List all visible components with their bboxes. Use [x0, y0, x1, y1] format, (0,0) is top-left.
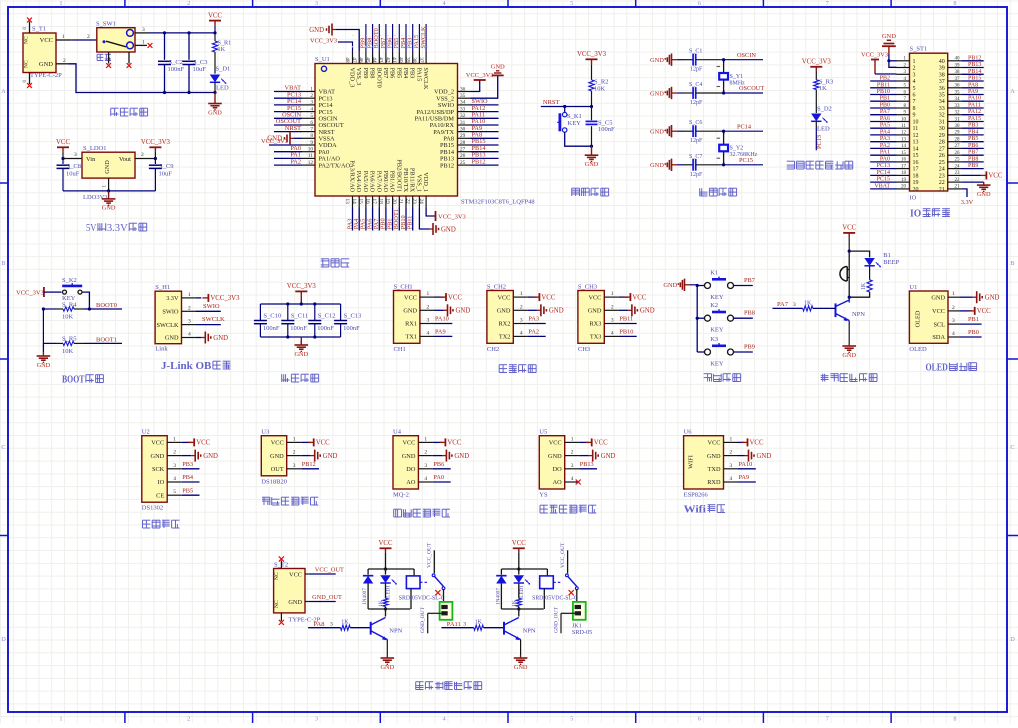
svg-text:DS1302: DS1302 [142, 505, 163, 512]
svg-text:PC15: PC15 [877, 177, 890, 183]
svg-text:19: 19 [901, 178, 907, 183]
svg-text:GND: GND [640, 308, 655, 315]
svg-text:GND: GND [842, 352, 856, 359]
svg-text:S_LDO1: S_LDO1 [83, 145, 106, 152]
svg-text:2: 2 [571, 450, 574, 456]
svg-text:36: 36 [460, 86, 466, 92]
svg-text:20: 20 [901, 185, 907, 190]
svg-text:15: 15 [358, 199, 364, 205]
svg-text:S_K2: S_K2 [62, 277, 77, 284]
svg-text:SRD-05VDC-SL-C: SRD-05VDC-SL-C [532, 596, 578, 602]
svg-text:35: 35 [955, 90, 961, 95]
svg-text:PB15: PB15 [968, 76, 981, 82]
svg-text:RX3: RX3 [589, 321, 601, 328]
svg-text:16: 16 [913, 160, 919, 166]
svg-text:6: 6 [913, 93, 916, 99]
svg-text:GND: GND [456, 308, 471, 315]
svg-text:Link: Link [155, 346, 168, 353]
svg-text:31: 31 [955, 117, 961, 122]
svg-text:RXD: RXD [707, 479, 721, 486]
svg-text:38: 38 [955, 70, 961, 75]
svg-text:GND: GND [650, 162, 664, 169]
svg-text:13: 13 [901, 138, 907, 143]
svg-text:LED1: LED1 [386, 585, 392, 598]
svg-text:100nF: 100nF [263, 325, 280, 332]
svg-text:BOOT0: BOOT0 [375, 68, 382, 88]
svg-text:PB8: PB8 [744, 310, 755, 317]
svg-text:1: 1 [59, 0, 62, 7]
svg-text:34: 34 [939, 99, 945, 105]
svg-text:S_H1: S_H1 [155, 284, 170, 291]
svg-text:OSCIN: OSCIN [737, 52, 756, 59]
svg-text:2: 2 [913, 66, 916, 72]
svg-text:8: 8 [953, 716, 956, 723]
svg-text:GND: GND [650, 57, 664, 64]
svg-text:2: 2 [293, 450, 296, 456]
svg-text:3.3V: 3.3V [166, 295, 179, 302]
svg-text:VCC_3V3: VCC_3V3 [577, 51, 607, 58]
svg-text:NPN: NPN [523, 628, 536, 635]
svg-text:YS: YS [539, 492, 548, 499]
svg-text:TX1: TX1 [405, 334, 417, 341]
svg-text:37: 37 [955, 77, 961, 82]
svg-text:14: 14 [901, 144, 907, 149]
svg-text:VCC: VCC [512, 540, 526, 547]
svg-text:S_CH3: S_CH3 [578, 283, 597, 290]
svg-text:PA2: PA2 [528, 329, 539, 336]
svg-text:GND: GND [497, 308, 511, 315]
svg-text:21: 21 [939, 187, 945, 193]
svg-text:1N4007: 1N4007 [495, 588, 501, 605]
svg-text:U5: U5 [539, 429, 547, 436]
svg-text:RX2: RX2 [498, 321, 510, 328]
svg-text:PA11: PA11 [968, 103, 981, 109]
svg-text:41: 41 [391, 57, 397, 63]
svg-text:PB6: PB6 [968, 143, 978, 149]
svg-text:PA10: PA10 [968, 96, 981, 102]
svg-text:1: 1 [173, 436, 176, 442]
svg-text:PC13: PC13 [877, 163, 890, 169]
svg-text:34: 34 [460, 100, 466, 106]
svg-text:44: 44 [371, 57, 377, 63]
svg-text:GND: GND [403, 308, 417, 315]
svg-text:BOOT1: BOOT1 [96, 336, 117, 343]
svg-text:KEY: KEY [568, 120, 582, 127]
svg-text:1: 1 [62, 34, 65, 40]
svg-text:AO: AO [553, 479, 563, 486]
svg-text:VCC: VCC [208, 12, 222, 19]
svg-text:6: 6 [698, 716, 701, 723]
svg-text:SWCLK: SWCLK [202, 316, 225, 323]
svg-text:U3: U3 [261, 429, 269, 436]
svg-text:GND_OUT: GND_OUT [553, 606, 559, 633]
svg-text:PA3: PA3 [880, 136, 890, 142]
svg-text:PA10: PA10 [435, 316, 449, 323]
svg-text:GND_OUT: GND_OUT [312, 594, 342, 601]
svg-text:VCC_3V3: VCC_3V3 [802, 59, 832, 66]
svg-text:23: 23 [939, 173, 945, 179]
svg-text:23: 23 [955, 171, 961, 176]
svg-text:20: 20 [391, 198, 397, 204]
svg-text:D: D [1, 636, 6, 643]
svg-text:37: 37 [939, 79, 945, 85]
svg-text:BOOT0: BOOT0 [96, 302, 117, 309]
svg-text:GND: GND [104, 160, 111, 174]
svg-text:S_SW1: S_SW1 [96, 21, 116, 28]
svg-text:PC14: PC14 [737, 123, 752, 130]
svg-text:GND: GND [757, 453, 772, 460]
svg-text:34: 34 [955, 97, 961, 102]
svg-text:1: 1 [913, 59, 916, 65]
svg-text:3: 3 [571, 463, 574, 469]
svg-text:BEEP: BEEP [883, 259, 899, 266]
svg-text:S_C9: S_C9 [159, 163, 173, 170]
svg-text:3: 3 [315, 716, 318, 723]
svg-text:A: A [1, 88, 6, 95]
svg-text:Vout: Vout [119, 156, 131, 163]
svg-text:GND: GND [39, 61, 53, 68]
svg-text:PB13: PB13 [968, 62, 981, 68]
svg-text:12: 12 [901, 131, 907, 136]
svg-text:100nF: 100nF [598, 126, 615, 133]
svg-text:GND: GND [402, 453, 416, 460]
svg-text:3: 3 [142, 27, 145, 33]
svg-text:2: 2 [427, 304, 430, 310]
svg-text:32: 32 [939, 113, 945, 119]
svg-text:7: 7 [826, 0, 829, 7]
svg-text:3: 3 [293, 463, 296, 469]
svg-text:PA0: PA0 [880, 156, 890, 162]
svg-text:DS18B20: DS18B20 [261, 478, 287, 485]
svg-text:PB8: PB8 [369, 68, 376, 79]
svg-text:S_T1: S_T1 [32, 26, 46, 33]
svg-text:28: 28 [460, 140, 466, 146]
svg-text:VCC: VCC [196, 440, 210, 447]
svg-text:SCK: SCK [152, 466, 165, 473]
svg-text:2: 2 [188, 305, 191, 311]
svg-text:B: B [1010, 260, 1014, 267]
svg-text:40: 40 [939, 59, 945, 65]
svg-text:39: 39 [404, 57, 410, 63]
svg-text:A: A [1010, 88, 1015, 95]
svg-text:1: 1 [427, 291, 430, 297]
svg-text:PA15: PA15 [415, 68, 422, 82]
svg-text:VCC: VCC [151, 440, 164, 447]
svg-text:LED1: LED1 [519, 585, 525, 598]
svg-text:PB4: PB4 [968, 129, 978, 135]
svg-text:25: 25 [460, 160, 466, 166]
svg-text:36: 36 [955, 84, 961, 89]
svg-text:S_C10: S_C10 [263, 312, 281, 319]
svg-text:40: 40 [955, 57, 961, 62]
svg-text:S_K1: S_K1 [567, 113, 582, 120]
svg-text:35: 35 [460, 93, 466, 99]
svg-text:PB10/TX: PB10/TX [402, 168, 409, 193]
svg-text:2: 2 [187, 0, 190, 7]
svg-text:3: 3 [74, 152, 77, 158]
svg-text:6: 6 [310, 120, 313, 126]
svg-text:PB10: PB10 [619, 329, 633, 336]
svg-text:33: 33 [460, 106, 466, 112]
svg-text:TXD: TXD [708, 466, 721, 473]
svg-text:PB1: PB1 [880, 96, 890, 102]
svg-text:4: 4 [427, 330, 430, 336]
svg-text:11: 11 [901, 124, 906, 129]
svg-text:29: 29 [955, 131, 961, 136]
svg-text:33: 33 [939, 106, 945, 112]
svg-text:5: 5 [570, 716, 573, 723]
svg-text:DO: DO [553, 466, 563, 473]
svg-text:SWCLK: SWCLK [156, 322, 178, 329]
svg-text:PB9: PB9 [362, 68, 369, 79]
svg-text:KEY: KEY [710, 361, 724, 368]
svg-text:VSS_1: VSS_1 [415, 174, 422, 192]
svg-text:PA12: PA12 [968, 109, 981, 115]
svg-text:3: 3 [315, 0, 318, 7]
svg-text:VCC: VCC [594, 440, 608, 447]
svg-text:VCC_3V3: VCC_3V3 [16, 289, 44, 296]
svg-text:PA9: PA9 [739, 474, 750, 481]
svg-text:9: 9 [913, 113, 916, 119]
svg-text:PB12: PB12 [968, 55, 981, 61]
svg-text:32: 32 [460, 113, 466, 119]
svg-text:GND: GND [601, 453, 616, 460]
svg-text:1: 1 [520, 291, 523, 297]
svg-text:VCC_3V3: VCC_3V3 [861, 51, 888, 58]
svg-text:15: 15 [901, 151, 907, 156]
svg-text:PA4: PA4 [880, 129, 890, 135]
svg-text:PB11/RX: PB11/RX [409, 168, 416, 193]
svg-text:3: 3 [310, 100, 313, 106]
svg-text:U1: U1 [909, 284, 917, 291]
svg-text:46: 46 [358, 57, 364, 63]
svg-text:23: 23 [411, 199, 417, 205]
svg-text:VCC_3V3: VCC_3V3 [261, 138, 288, 145]
svg-text:1: 1 [310, 86, 313, 92]
svg-text:8MHz: 8MHz [730, 81, 746, 87]
svg-text:4: 4 [188, 332, 191, 338]
svg-text:IO: IO [158, 479, 165, 486]
svg-text:7: 7 [826, 716, 829, 723]
svg-text:CE: CE [156, 492, 164, 499]
svg-text:PA2/TX/AO: PA2/TX/AO [319, 162, 351, 169]
svg-text:10uF: 10uF [159, 171, 173, 178]
svg-text:VCC: VCC [56, 139, 70, 146]
svg-text:PB12: PB12 [472, 158, 486, 165]
svg-text:2: 2 [310, 93, 313, 99]
svg-text:PA0: PA0 [433, 474, 444, 481]
svg-text:PC13: PC13 [816, 135, 823, 149]
svg-text:VCC_OUT: VCC_OUT [560, 542, 566, 568]
svg-text:2: 2 [63, 58, 66, 64]
svg-text:4: 4 [730, 476, 733, 482]
svg-text:PC14: PC14 [877, 170, 890, 176]
svg-text:19: 19 [384, 198, 390, 204]
svg-text:100nF: 100nF [168, 66, 185, 73]
svg-text:S_Y1: S_Y1 [730, 74, 744, 80]
svg-text:25: 25 [939, 160, 945, 166]
svg-text:GND: GND [707, 453, 721, 460]
svg-text:9: 9 [310, 140, 313, 146]
svg-text:OLED: OLED [926, 362, 949, 374]
svg-text:22: 22 [404, 198, 410, 204]
svg-text:17: 17 [371, 199, 377, 205]
svg-text:10K: 10K [62, 348, 74, 355]
svg-text:GND: GND [102, 205, 116, 212]
svg-text:PA9: PA9 [435, 329, 446, 336]
svg-text:27: 27 [955, 144, 961, 149]
svg-text:PA2: PA2 [290, 158, 301, 165]
svg-text:NRST: NRST [285, 125, 301, 132]
svg-text:TX3: TX3 [590, 334, 602, 341]
svg-text:3: 3 [913, 72, 916, 78]
svg-text:100nF: 100nF [317, 325, 334, 332]
svg-text:NC: NC [274, 572, 280, 580]
svg-text:1K: 1K [861, 282, 867, 290]
svg-text:GND: GND [288, 599, 302, 606]
svg-text:K1: K1 [710, 270, 718, 277]
svg-text:PA7/AO: PA7/AO [375, 171, 382, 193]
svg-text:GND: GND [37, 362, 51, 369]
svg-text:37: 37 [418, 57, 424, 63]
svg-text:STM32F103C8T6_LQFP48: STM32F103C8T6_LQFP48 [461, 199, 535, 206]
svg-text:1K: 1K [341, 620, 349, 626]
svg-text:PB5: PB5 [182, 487, 193, 494]
svg-text:S_D2: S_D2 [817, 106, 832, 113]
svg-text:13: 13 [913, 140, 919, 146]
svg-text:PB3: PB3 [182, 461, 193, 468]
svg-text:VCC: VCC [271, 440, 284, 447]
svg-text:32: 32 [955, 111, 961, 116]
svg-text:10uF: 10uF [193, 66, 207, 73]
svg-text:10uF: 10uF [66, 171, 80, 178]
svg-text:VCC_3V3: VCC_3V3 [287, 283, 317, 290]
svg-text:B: B [1, 260, 5, 267]
svg-text:BOOT: BOOT [62, 374, 85, 386]
svg-text:GND: GND [270, 453, 284, 460]
svg-text:24: 24 [939, 167, 945, 173]
svg-text:VCC: VCC [379, 540, 393, 547]
svg-text:2: 2 [141, 152, 144, 158]
svg-text:4: 4 [913, 79, 916, 85]
svg-text:PB2/BOOT1: PB2/BOOT1 [395, 159, 402, 192]
svg-text:PB9: PB9 [744, 344, 755, 351]
svg-text:1: 1 [59, 716, 62, 723]
svg-text:14: 14 [351, 199, 357, 205]
svg-text:GND: GND [882, 33, 896, 40]
svg-text:1N4007: 1N4007 [362, 588, 368, 605]
svg-text:3: 3 [952, 318, 955, 324]
svg-text:LED: LED [216, 85, 229, 92]
svg-text:GND: GND [208, 109, 222, 116]
svg-text:OLED: OLED [909, 346, 927, 353]
svg-text:GND: GND [151, 453, 165, 460]
svg-text:PA3/RX/AO: PA3/RX/AO [349, 160, 356, 192]
svg-text:PB4: PB4 [402, 67, 409, 79]
svg-text:3: 3 [427, 318, 430, 324]
svg-text:S_C1: S_C1 [689, 49, 702, 55]
svg-text:GND: GND [165, 335, 179, 342]
svg-text:S_D1: S_D1 [216, 66, 231, 73]
svg-text:GND: GND [514, 664, 528, 671]
svg-text:24: 24 [955, 164, 961, 169]
svg-text:5: 5 [570, 0, 573, 7]
svg-text:VCC: VCC [932, 308, 945, 315]
svg-text:VCC: VCC [447, 440, 461, 447]
svg-text:S_ST1: S_ST1 [910, 46, 928, 53]
svg-text:PA4/AO: PA4/AO [355, 171, 362, 193]
svg-text:3: 3 [173, 463, 176, 469]
svg-text:26: 26 [460, 153, 466, 159]
svg-text:PA2: PA2 [880, 143, 890, 149]
svg-text:PB11: PB11 [619, 316, 633, 323]
svg-text:PB12: PB12 [302, 461, 316, 468]
svg-text:VCC_OUT: VCC_OUT [315, 567, 344, 574]
svg-text:47: 47 [351, 57, 357, 63]
svg-text:11: 11 [913, 126, 919, 132]
svg-text:22: 22 [939, 180, 945, 186]
svg-text:S_CH2: S_CH2 [487, 283, 506, 290]
svg-text:25: 25 [955, 158, 961, 163]
svg-text:NC: NC [274, 600, 280, 608]
svg-text:PA7: PA7 [880, 109, 890, 115]
svg-text:PB0: PB0 [968, 329, 979, 336]
svg-text:PB2: PB2 [880, 76, 890, 82]
svg-text:GND_OUT: GND_OUT [420, 606, 426, 633]
svg-text:PB9: PB9 [968, 163, 978, 169]
svg-text:PA1: PA1 [880, 150, 890, 156]
svg-text:RX1: RX1 [405, 321, 417, 328]
svg-text:27: 27 [939, 146, 945, 152]
svg-text:7: 7 [913, 99, 916, 105]
svg-text:5: 5 [310, 113, 313, 119]
svg-text:30: 30 [955, 124, 961, 129]
svg-text:PB13: PB13 [580, 461, 594, 468]
svg-text:21: 21 [955, 185, 961, 190]
svg-text:28: 28 [939, 140, 945, 146]
svg-text:NC: NC [24, 60, 30, 68]
svg-text:LDO3V3: LDO3V3 [83, 194, 108, 201]
svg-text:VCC: VCC [549, 440, 562, 447]
svg-text:GND: GND [663, 282, 677, 289]
svg-text:GND: GND [213, 335, 228, 342]
svg-text:38: 38 [939, 72, 945, 78]
svg-text:VCC: VCC [404, 294, 417, 301]
svg-text:IO: IO [910, 208, 921, 220]
svg-text:17: 17 [901, 164, 907, 169]
svg-text:GND: GND [977, 191, 991, 198]
svg-text:GND: GND [585, 161, 599, 168]
svg-text:SCL: SCL [933, 321, 945, 328]
svg-text:GND: GND [323, 453, 338, 460]
svg-text:33: 33 [955, 104, 961, 109]
svg-text:29: 29 [460, 133, 466, 139]
svg-text:5V: 5V [86, 222, 97, 234]
svg-text:1K: 1K [378, 600, 384, 607]
svg-text:1K: 1K [819, 85, 827, 92]
svg-text:3: 3 [188, 319, 191, 325]
svg-text:7: 7 [310, 126, 313, 132]
svg-text:3: 3 [793, 302, 796, 308]
svg-text:3: 3 [730, 463, 733, 469]
svg-text:VCC: VCC [588, 294, 601, 301]
svg-text:DO: DO [406, 466, 416, 473]
svg-text:1K: 1K [804, 301, 812, 307]
svg-text:31: 31 [939, 120, 945, 126]
svg-text:PB11: PB11 [877, 82, 890, 88]
svg-text:31: 31 [460, 120, 466, 126]
svg-text:S_C12: S_C12 [318, 312, 336, 319]
